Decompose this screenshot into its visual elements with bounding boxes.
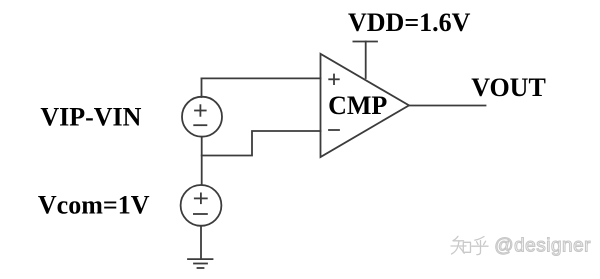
- svg-text:VIP-VIN: VIP-VIN: [40, 102, 141, 131]
- svg-text:VOUT: VOUT: [471, 73, 546, 102]
- svg-text:Vcom=1V: Vcom=1V: [38, 190, 150, 219]
- svg-text:CMP: CMP: [328, 91, 387, 120]
- svg-text:VDD=1.6V: VDD=1.6V: [348, 8, 471, 37]
- svg-text:@designer: @designer: [494, 236, 591, 257]
